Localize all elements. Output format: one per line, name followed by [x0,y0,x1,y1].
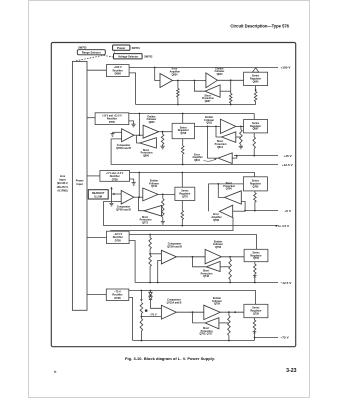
rectifier D708 [106,289,129,301]
resistor Q840 load [229,80,232,104]
ground D750 [129,121,136,127]
svg-text:Q837: Q837 [205,100,212,103]
wire Q810 sense [232,156,237,159]
node on +100V rail [154,67,156,69]
svg-text:Q772: Q772 [142,222,149,225]
diagram border frame [51,43,295,347]
wire -75 V output [254,336,290,340]
op-amp comparator Q745A and B [116,191,134,212]
svg-text:Q810: Q810 [194,159,201,162]
resistor divider lower row4 [149,255,152,282]
svg-text:Q745A and B: Q745A and B [116,208,131,211]
wire comparator output [134,173,143,199]
resistor below Q780 [254,191,257,211]
svg-text:ILLUM: ILLUM [94,195,102,198]
wire readout wiper [112,193,122,195]
svg-text:Q765A and B: Q765A and B [116,147,131,150]
wire Q746 output [158,194,175,196]
svg-text:Q840: Q840 [217,73,224,76]
wire -75V raw rail [129,290,256,305]
resistor reference divider lower [140,319,143,341]
wire +100V rail [129,67,278,69]
wire D808 return [129,73,136,105]
resistor Q709 load [228,312,231,340]
svg-text:Q798: Q798 [180,132,187,135]
wire Q814 base [236,136,241,138]
transistor short protection Q748 [201,261,221,278]
wire transformer to D808 [87,69,106,71]
svg-text:Q709: Q709 [214,303,221,306]
wire row5 return rail [133,338,255,342]
svg-text:+12.5 V: +12.5 V [282,163,294,167]
svg-text:Power: Power [117,46,126,50]
wire +5 V output [244,209,292,213]
resistor Q758 load [229,257,232,283]
transistor emitter follower Q709 [204,297,222,320]
wire transformer to D750 [87,117,95,119]
wire Q806 feedback [137,135,140,143]
svg-text:Q739: Q739 [253,313,260,316]
zener diode reference [149,291,162,309]
rectifier D720 [107,231,130,243]
line input annotation [57,174,69,192]
svg-text:Q834: Q834 [172,73,179,76]
wire Q798 to Q811 [195,126,221,128]
wire Q705 base [219,322,229,324]
wire -12.5V raw rail [129,234,256,250]
resistor divider row1 [177,81,180,105]
op-amp error amplifier Q810 [192,153,232,164]
op-amp error amplifier Q788 [211,205,232,222]
rectifier D750 [95,113,129,125]
transistor short protection Q705 Q717 [199,318,218,336]
wire comparator output row4 [176,256,205,258]
resistor reference divider upper [140,291,143,319]
wire 0 to 4.5 V output [104,224,291,228]
series regulator Q807 [244,120,268,133]
op-amp error amplifier Q834 [160,68,180,88]
wire Q784 base [241,202,245,211]
wire comparator sense row5 [141,316,161,318]
ground D738 [130,179,136,185]
potentiometer READOUT ILLUM [88,190,108,199]
series regulator Q756 [244,249,268,261]
switch SW703 label [78,46,87,49]
resistor divider upper row4 [149,235,152,256]
wire Q748 feedback [193,257,207,267]
wire Q705 feedback [193,312,206,323]
wire +5V raw rail [130,172,255,188]
svg-text:Line: Line [60,174,66,178]
wire -12.5 V output [135,281,292,285]
op-amp comparator Q735A and B [161,242,182,264]
switch SW703 Range Selector [77,50,105,55]
svg-text:SW701: SW701 [132,47,141,50]
wire Q837 base [220,90,231,92]
svg-text:−75 V: −75 V [150,312,157,316]
wire Q840 output [217,79,243,81]
wire Q772 feedback [139,197,145,211]
svg-text:Q788: Q788 [213,219,220,222]
wire +15V raw rail [129,113,254,124]
wire transformer to D738 [87,175,100,177]
svg-text:D738: D738 [112,178,119,181]
resistor Q800 load [161,132,165,149]
wire row3 divider return [110,218,233,231]
wire Q748 base [220,266,230,268]
svg-text:180-272 V,: 180-272 V, [57,186,69,189]
series regulator Q798 [172,123,194,138]
wire +12.5 V output [111,163,293,167]
svg-text:D720: D720 [115,238,122,242]
svg-text:Q705, Q717: Q705, Q717 [199,333,213,336]
wire Q837 apex feedback [194,81,205,92]
op-amp comparator Q765A and B [116,129,134,150]
svg-text:Circuit Description—Type 576: Circuit Description—Type 576 [230,24,289,29]
wire Q811 output [236,126,244,128]
op-amp comparator Q715A and B [161,298,181,319]
wire row3 loop to regulator [209,183,244,211]
resistor below Q807 [253,133,256,156]
svg-text:Q758: Q758 [215,246,222,249]
resistor Q746 load [161,194,165,224]
page number mark [54,371,56,373]
series regulator Q739 [244,304,268,317]
series regulator Q776 [175,187,195,200]
svg-text:D708: D708 [114,296,121,300]
wire +15 V output [234,154,293,158]
wire readout pot element [110,187,112,203]
wire transformer to D708 [87,294,106,296]
wire comparator output [134,114,143,137]
svg-text:+15 V: +15 V [284,154,293,158]
switch SW702 Voltage Selector [114,54,154,59]
transistor short protection Q784 [223,182,241,204]
svg-text:Q780: Q780 [252,185,259,188]
svg-text:Q845: Q845 [253,80,260,83]
svg-text:Fig. 3-10. Block diagram of L.: Fig. 3-10. Block diagram of L. V. Power … [125,356,215,361]
transistor emitter follower Q811 [204,116,236,133]
resistor below Q776 [181,201,184,226]
transistor short protection Q814 [215,132,236,149]
svg-text:Q715A and B: Q715A and B [167,301,182,304]
svg-text:AC RMS): AC RMS) [57,189,68,192]
wire D720 return [129,241,135,283]
transistor short protection Q772 [140,206,162,225]
transistor short protection Q806 [140,138,157,158]
svg-text:Q784: Q784 [226,188,233,191]
transistor emitter follower Q746 [143,180,159,201]
mechanical linkage dashed [76,50,115,61]
power transformer T701 Power Input [72,61,87,310]
svg-text:Q806: Q806 [143,155,150,158]
transistor short protection Q837 [202,85,220,103]
svg-text:Input: Input [59,178,65,182]
wire error amp output [173,80,206,82]
wire comparator output row5 [176,311,203,313]
svg-text:Q746: Q746 [151,185,158,188]
wire Q800 output [159,131,173,133]
figure caption [125,356,215,361]
svg-text:Q756: Q756 [253,257,260,260]
transistor emitter follower Q840 [206,67,225,87]
wire transformer to D720 [87,236,107,238]
resistor below Q756 [253,262,257,283]
svg-text:Q748: Q748 [203,275,210,278]
transistor emitter follower Q758 [205,240,223,263]
series regulator Q780 [243,177,267,191]
transistor emitter follower Q800 [143,115,159,138]
wire rail to error amp input [155,68,160,81]
rectifier D808 [106,65,129,77]
resistor below Q739 [253,318,257,338]
svg-text:Range Selector: Range Selector [82,51,101,55]
wire Q709 output [220,311,244,313]
page number 3-23 [286,368,296,374]
svg-text:Input: Input [77,182,83,186]
svg-text:(90-136 V,: (90-136 V, [57,182,68,185]
header text [230,24,289,29]
wire Q784 input [218,184,224,198]
svg-text:Q811: Q811 [206,122,212,125]
resistor Q811 load [239,126,243,148]
switch SW701 Power [113,45,141,50]
resistor below Q845 [254,86,257,105]
svg-text:SW703: SW703 [78,46,87,49]
svg-text:0 to 4.5 V: 0 to 4.5 V [276,224,291,228]
svg-text:Q800: Q800 [149,121,156,124]
wire comparator inputs row4 [150,254,161,283]
node -75 V test point [145,309,157,316]
svg-text:−75 V: −75 V [281,336,290,340]
wire row1 feedback rail [136,104,256,106]
wire Q788 sense [233,210,245,212]
svg-text:SW702: SW702 [144,56,153,59]
svg-text:Voltage Selector: Voltage Selector [118,55,138,59]
svg-text:D750: D750 [109,121,116,124]
wire comparator sense input [104,202,122,226]
rectifier D738 [100,171,130,182]
wire Q810 feedback [208,126,219,158]
series regulator Q845 [244,68,268,86]
svg-text:−12.5 V: −12.5 V [281,281,293,285]
wire Q814 feedback [216,126,222,137]
svg-text:Q735A and B: Q735A and B [167,245,182,248]
svg-text:D808: D808 [115,72,122,76]
svg-text:Q776: Q776 [182,195,189,198]
svg-text:+100 V: +100 V [281,66,292,70]
svg-text:Q814: Q814 [217,146,224,149]
wire D708 return [129,298,133,341]
wire Q758 output [221,256,244,258]
ground readout pot [109,202,113,206]
svg-text:Power: Power [76,179,84,183]
ground comparator reference [110,132,121,136]
node +100 V output [281,66,292,70]
svg-text:+5 V: +5 V [285,209,292,213]
svg-text:3-23: 3-23 [286,368,296,374]
svg-text:Q807: Q807 [253,128,260,131]
wire comparator sense input [111,139,122,165]
resistor below Q798 [181,139,184,165]
